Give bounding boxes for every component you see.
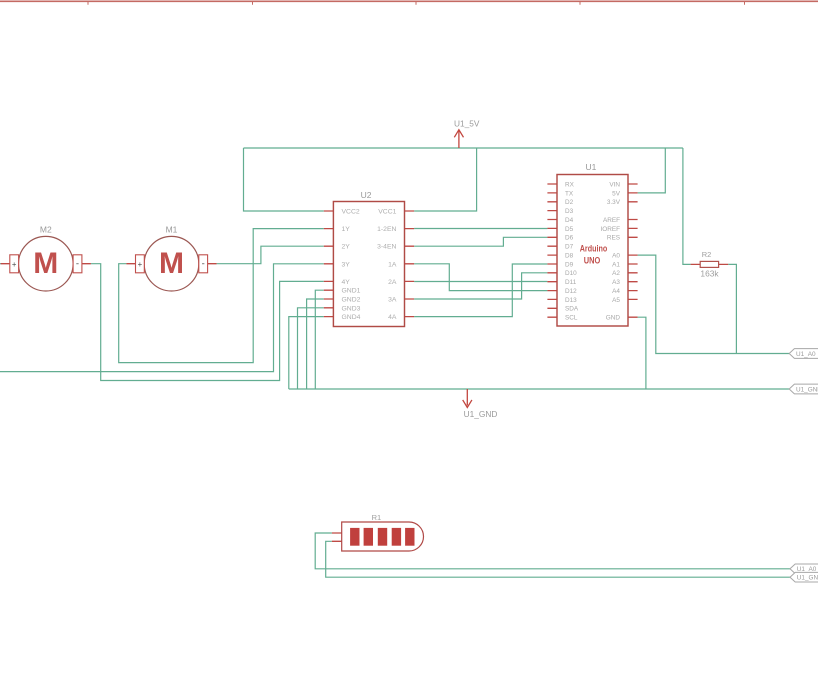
svg-text:-: - <box>76 259 79 270</box>
svg-text:3-4EN: 3-4EN <box>377 244 396 251</box>
svg-text:M2: M2 <box>40 224 52 234</box>
wire 5V rail to U1 5V <box>638 148 666 193</box>
svg-text:VIN: VIN <box>609 181 620 188</box>
sheet frame (decorative) <box>0 1 818 5</box>
svg-text:AREF: AREF <box>603 217 620 224</box>
wire R1 bottom pin to right edge <box>326 541 790 577</box>
wire U2 GND2 to bus <box>307 299 324 389</box>
svg-text:D7: D7 <box>565 244 574 251</box>
svg-text:U1_A0: U1_A0 <box>796 351 816 358</box>
svg-text:D8: D8 <box>565 253 574 260</box>
svg-text:D13: D13 <box>565 297 577 304</box>
U2 left pin stubs <box>324 211 334 317</box>
svg-text:R1: R1 <box>372 513 382 522</box>
wire GND bus <box>289 388 789 390</box>
wire R2 right to A0 net <box>728 264 736 353</box>
wire U1 A0 net <box>638 255 790 353</box>
svg-text:A2: A2 <box>612 270 620 277</box>
U2 body <box>333 202 404 327</box>
svg-text:SCL: SCL <box>565 315 578 322</box>
wire R1 top pin to right edge <box>315 533 790 569</box>
svg-text:RES: RES <box>607 235 620 242</box>
svg-text:U1_GND: U1_GND <box>464 409 498 419</box>
svg-text:M: M <box>159 247 184 280</box>
svg-text:D10: D10 <box>565 270 577 277</box>
svg-text:SDA: SDA <box>565 306 579 313</box>
svg-text:D5: D5 <box>565 226 574 233</box>
svg-text:4Y: 4Y <box>342 279 351 286</box>
svg-text:1-2EN: 1-2EN <box>377 226 396 233</box>
svg-text:GND: GND <box>606 315 621 322</box>
svg-text:D11: D11 <box>565 279 577 286</box>
svg-text:GND2: GND2 <box>342 297 361 304</box>
svg-text:R2: R2 <box>702 250 712 259</box>
wire U1 GND to bus <box>638 317 646 389</box>
svg-text:2Y: 2Y <box>342 244 351 251</box>
U2 right pin stubs <box>405 211 415 317</box>
svg-text:A0: A0 <box>612 253 620 260</box>
svg-text:UNO: UNO <box>584 256 601 266</box>
svg-text:RX: RX <box>565 181 575 188</box>
svg-text:3.3V: 3.3V <box>607 199 621 206</box>
svg-text:M: M <box>33 247 58 280</box>
svg-text:U1_GND: U1_GND <box>796 386 818 393</box>
svg-text:+: + <box>138 260 143 269</box>
wire 5V rail to U2 VCC2 <box>244 148 324 211</box>
svg-text:163k: 163k <box>700 269 719 279</box>
wire U2 4A to U1 D9 <box>414 264 547 317</box>
svg-text:D4: D4 <box>565 217 574 224</box>
svg-text:2A: 2A <box>388 279 397 286</box>
wire U2 3-4EN to U1 D6 <box>414 237 547 246</box>
svg-text:4A: 4A <box>388 314 397 321</box>
svg-text:-: - <box>202 259 205 270</box>
U1 right pin stubs <box>628 184 638 317</box>
svg-text:U1: U1 <box>585 162 596 172</box>
svg-text:D3: D3 <box>565 208 574 215</box>
wire U2 1-2EN to U1 D5 <box>414 228 547 230</box>
wire U2 GND4 to bus <box>289 317 324 389</box>
svg-text:3A: 3A <box>388 297 397 304</box>
svg-text:1Y: 1Y <box>342 226 351 233</box>
svg-text:GND3: GND3 <box>342 305 361 312</box>
wire 5V rail to U2 VCC1 <box>414 148 477 211</box>
U1 left pin stubs <box>547 184 557 317</box>
wire M2 plus to left edge <box>0 263 1 265</box>
svg-text:GND4: GND4 <box>342 314 361 321</box>
wire M1 plus to U2 1Y <box>119 229 324 363</box>
U1 pin names <box>565 181 621 321</box>
svg-text:D6: D6 <box>565 235 574 242</box>
wire M1 minus to U2 2Y <box>217 246 324 264</box>
svg-text:TX: TX <box>565 190 574 197</box>
wire U2 GND1 to bus <box>315 290 324 389</box>
svg-text:A4: A4 <box>612 288 620 295</box>
svg-text:D12: D12 <box>565 288 577 295</box>
svg-text:5V: 5V <box>612 190 621 197</box>
svg-text:M1: M1 <box>166 224 178 234</box>
svg-text:IOREF: IOREF <box>600 226 620 233</box>
svg-text:3Y: 3Y <box>342 261 351 268</box>
wire 5V top rail <box>244 147 683 149</box>
wire M2 minus to U2 4Y <box>91 264 324 381</box>
svg-text:A3: A3 <box>612 279 620 286</box>
svg-text:GND1: GND1 <box>342 288 361 295</box>
wire U2 1A to U1 D12 <box>414 264 547 291</box>
svg-text:Arduino: Arduino <box>580 244 608 254</box>
wire U2 3A to U1 D10 <box>414 273 547 299</box>
svg-text:1A: 1A <box>388 261 397 268</box>
svg-text:U2: U2 <box>361 190 372 200</box>
svg-text:D2: D2 <box>565 199 574 206</box>
wire U2 GND3 to bus <box>298 308 324 389</box>
U1 body <box>557 175 628 327</box>
svg-text:D9: D9 <box>565 261 574 268</box>
wire U2 3Y to left edge <box>0 264 324 372</box>
wire 5V rail to R2 left <box>683 148 691 264</box>
wire U2 2A to U1 D11 <box>414 281 547 283</box>
svg-text:+: + <box>12 260 17 269</box>
U2 pin names <box>342 209 397 322</box>
svg-text:VCC1: VCC1 <box>378 209 396 216</box>
svg-text:VCC2: VCC2 <box>342 209 360 216</box>
svg-text:U1_5V: U1_5V <box>454 118 480 128</box>
svg-text:A1: A1 <box>612 261 620 268</box>
svg-text:U1_GND: U1_GND <box>797 575 818 582</box>
svg-text:A5: A5 <box>612 297 620 304</box>
